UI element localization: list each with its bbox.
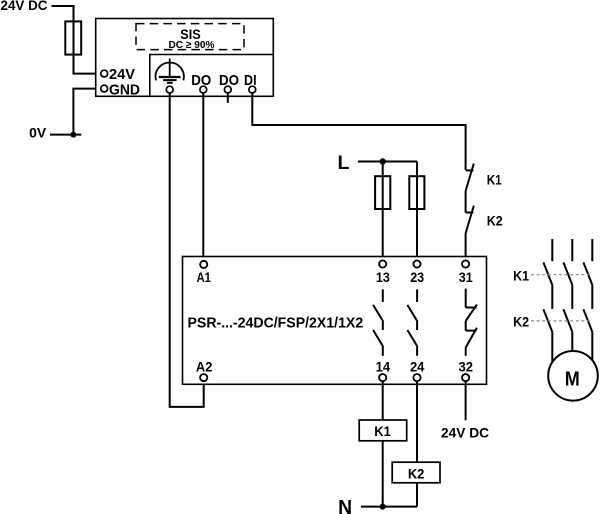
fuse F2 <box>375 176 390 209</box>
svg-text:14: 14 <box>376 359 391 375</box>
contact K2 NC feedback <box>466 206 474 234</box>
SIS dashed frame <box>136 24 244 50</box>
terminal 23 <box>413 260 420 267</box>
terminal earth <box>166 86 173 93</box>
terminal 14 <box>379 374 386 381</box>
svg-text:N: N <box>338 497 352 514</box>
terminal 31 <box>462 260 469 267</box>
terminal GND <box>101 85 108 92</box>
svg-text:K2: K2 <box>513 314 529 330</box>
wire L to terminal 13 via fuse F2 <box>382 162 384 261</box>
wire N rail <box>361 506 417 508</box>
contactor K1 main contacts <box>543 262 592 285</box>
power supply SIS box <box>96 19 274 97</box>
svg-text:M: M <box>565 367 580 390</box>
svg-text:K1: K1 <box>374 423 391 439</box>
wire phase 1 supply <box>551 239 553 261</box>
junction N / K1 <box>380 504 386 510</box>
svg-text:DO: DO <box>219 72 239 89</box>
svg-text:24V DC: 24V DC <box>1 0 48 13</box>
wire 32 to 24V DC <box>465 381 467 420</box>
contact 31-32 NC <box>466 289 477 356</box>
contact 23-24 NO <box>407 289 417 355</box>
coil K1 <box>359 420 407 441</box>
terminal DI <box>249 86 256 93</box>
wire L to terminal 23 via fuse F3 <box>416 162 418 261</box>
terminal A2 <box>200 374 207 381</box>
svg-text:GND: GND <box>109 81 140 98</box>
SIS output section divider <box>150 55 273 97</box>
fuse F1 <box>65 21 81 54</box>
svg-text:DC ≥ 90%: DC ≥ 90% <box>169 39 216 51</box>
wire L rail <box>358 161 417 163</box>
fuse F3 <box>409 176 424 209</box>
terminal 32 <box>462 374 469 381</box>
wire phase 3 supply <box>591 239 593 261</box>
wire DO2 stub <box>227 93 229 103</box>
wire 14 to N via coil K1 <box>382 381 384 506</box>
terminal 13 <box>379 260 386 267</box>
wire K2 contact to terminal 31 <box>465 234 467 261</box>
svg-text:PSR-...-24DC/FSP/2X1/1X2: PSR-...-24DC/FSP/2X1/1X2 <box>188 314 364 331</box>
wire K1 contact to K2 contact <box>465 191 467 213</box>
linkage K1 dashed <box>531 274 590 276</box>
svg-text:24: 24 <box>410 359 425 375</box>
contact 13-14 NO <box>373 289 383 355</box>
wire DO1 to A1 <box>202 93 204 261</box>
svg-text:K1: K1 <box>513 267 529 283</box>
contact K1 NC feedback <box>466 164 474 192</box>
svg-text:13: 13 <box>376 269 390 285</box>
coil K2 <box>392 462 440 483</box>
earth symbol <box>156 59 184 83</box>
svg-text:24V DC: 24V DC <box>441 425 489 441</box>
terminal A1 <box>200 261 207 268</box>
svg-text:DI: DI <box>244 72 257 89</box>
wire GND terminal to 0V rail <box>73 89 100 135</box>
wire 24 to N via coil K2 <box>416 381 418 506</box>
svg-text:K2: K2 <box>487 212 503 228</box>
svg-text:K1: K1 <box>487 172 502 188</box>
svg-text:K2: K2 <box>408 465 425 481</box>
wire DI to feedback contact K1 <box>252 93 465 170</box>
wire 0V rail <box>50 134 81 136</box>
svg-text:0V: 0V <box>29 126 46 141</box>
terminal 24 <box>413 374 420 381</box>
wire phase 2 supply <box>571 239 573 261</box>
safety relay PSR box <box>183 257 487 385</box>
svg-text:31: 31 <box>459 269 473 285</box>
motor M <box>548 351 598 401</box>
svg-text:DO: DO <box>191 72 211 89</box>
terminal 24V <box>101 70 108 77</box>
wires K2 to motor <box>552 332 592 362</box>
svg-text:A1: A1 <box>197 269 212 285</box>
terminal DO 1 <box>200 86 207 93</box>
contactor K2 main contacts <box>543 309 592 332</box>
wire 24V DC to 24V terminal via fuse F1 <box>52 6 101 74</box>
terminal DO 2 <box>224 86 231 93</box>
wires phase K1 to K2 <box>552 285 592 309</box>
svg-text:32: 32 <box>459 359 474 375</box>
junction L <box>380 158 386 164</box>
svg-text:23: 23 <box>410 269 424 285</box>
svg-text:L: L <box>338 152 350 174</box>
junction 0V / GND <box>70 132 76 138</box>
wire earth terminal to A2 <box>170 93 204 407</box>
linkage K2 dashed <box>531 320 590 322</box>
svg-text:A2: A2 <box>196 359 213 375</box>
